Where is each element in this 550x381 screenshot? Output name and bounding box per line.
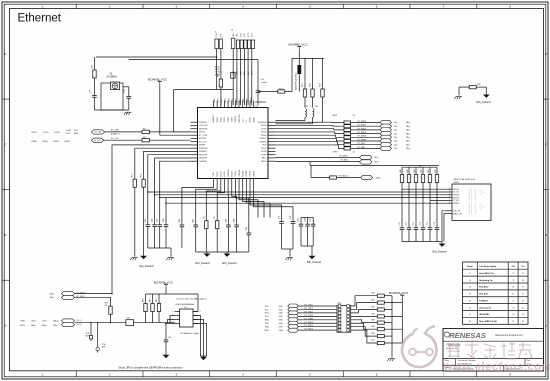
svg-text:1: 1 <box>42 5 44 9</box>
svg-text:TXD2: TXD2 <box>221 98 223 103</box>
svg-text:VSSA: VSSA <box>249 170 252 176</box>
svg-text:25.00MHz: 25.00MHz <box>107 77 118 79</box>
svg-text:R87: R87 <box>372 340 375 342</box>
svg-text:TXOM: TXOM <box>261 151 267 153</box>
resistor RT1 <box>401 167 403 174</box>
svg-text:2: 2 <box>109 5 111 9</box>
svg-text:TXEN: TXEN <box>231 117 233 123</box>
IC U2 bottom pins <box>213 169 255 185</box>
svg-text:R14: R14 <box>140 173 142 177</box>
svg-text:R83: R83 <box>372 313 375 315</box>
svg-text:74991: 74991 <box>454 182 459 184</box>
net flag ET_CRS pill <box>92 130 105 134</box>
svg-text:TMS+: TMS+ <box>265 320 271 322</box>
ground Eth_Ground RJ45 <box>439 244 446 247</box>
ground chassis mid <box>287 257 293 259</box>
resistor R23 <box>322 58 324 89</box>
svg-text:C23: C23 <box>298 218 300 222</box>
svg-text:Off: Off <box>512 266 515 268</box>
svg-text:R17: R17 <box>91 64 93 69</box>
capacitor CT5 <box>428 227 433 229</box>
svg-text:2TX-: 2TX- <box>221 33 223 38</box>
svg-text:R85: R85 <box>372 326 375 328</box>
wire TDP long run <box>148 155 447 192</box>
svg-text:49R: 49R <box>428 169 430 173</box>
svg-text:4K7: 4K7 <box>105 305 108 307</box>
svg-text:1RX+: 1RX+ <box>233 33 235 38</box>
ground Eth_Ground mid3 <box>309 256 316 259</box>
svg-text:<4Dr>: <4Dr> <box>31 320 37 323</box>
capacitor CT4 <box>421 227 426 229</box>
svg-text:TXD9: TXD9 <box>247 98 249 103</box>
resistor R2R <box>216 221 219 229</box>
svg-text:SIDE 10 ML RJ45 Jack: SIDE 10 ML RJ45 Jack <box>454 179 476 181</box>
svg-text:CT5: CT5 <box>427 222 429 225</box>
svg-text:RXIP: RXIP <box>262 154 267 156</box>
net flag ET_MDIO <box>360 155 373 159</box>
svg-text:RXDV: RXDV <box>231 170 233 176</box>
svg-text:LED0PH: LED0PH <box>199 158 207 160</box>
resistor RN1 <box>344 121 351 124</box>
svg-text:Used to store the MAC address: Used to store the MAC address <box>177 298 208 301</box>
capacitor C15 <box>92 94 97 96</box>
svg-text:PWRUP0: PWRUP0 <box>199 148 209 150</box>
svg-text:RESETB: RESETB <box>199 128 208 130</box>
svg-text:5: 5 <box>309 373 311 377</box>
capacitor CE4 <box>165 203 167 224</box>
wire cap rail left <box>148 247 171 249</box>
wire RX row 2 <box>276 129 345 130</box>
ground Eth_Ground left <box>140 256 147 259</box>
capacitor C16 <box>128 87 130 97</box>
svg-text:DB3+: DB3+ <box>376 177 382 179</box>
svg-text:BDVDD: BDVDD <box>199 138 207 140</box>
svg-text:R84: R84 <box>372 320 375 322</box>
svg-text:R22: R22 <box>310 83 312 87</box>
svg-text:Eth_Ground: Eth_Ground <box>140 264 155 268</box>
resistor RH4 <box>377 315 384 318</box>
svg-text:Lab Strap Option: Lab Strap Option <box>479 265 497 268</box>
capacitor CT1 <box>400 227 405 229</box>
wire VCC rail <box>292 57 324 59</box>
svg-text:L2B: L2B <box>315 106 319 108</box>
svg-text:Short JP5 to disable the EEPRO: Short JP5 to disable the EEPROM's write … <box>119 366 184 370</box>
resistor R12 <box>142 139 150 142</box>
svg-text:ET_RXD1: ET_RXD1 <box>358 125 367 127</box>
wire ET_MDC <box>276 161 360 163</box>
svg-text:OSCOUT: OSCOUT <box>199 125 209 127</box>
connector J6 <box>231 30 255 49</box>
svg-text:Eth_Ground: Eth_Ground <box>307 260 322 264</box>
title block <box>443 329 544 372</box>
svg-text:Switching On: Switching On <box>479 279 493 282</box>
svg-text:1TX+: 1TX+ <box>216 32 218 38</box>
svg-text:Eth_Ground: Eth_Ground <box>433 250 448 254</box>
svg-text:NDp: NDp <box>406 122 410 124</box>
svg-text:D: D <box>4 52 7 56</box>
svg-text:CT3: CT3 <box>413 222 415 225</box>
resistor RN2 <box>344 125 351 128</box>
svg-text:Auto MDI-X On: Auto MDI-X On <box>479 272 494 275</box>
resistor RT2 <box>408 167 410 174</box>
capacitor C24 <box>307 217 309 224</box>
svg-text:C16: C16 <box>124 88 126 93</box>
svg-text:CT_TD: CT_TD <box>453 192 459 194</box>
svg-text:TDO+: TDO+ <box>265 313 271 315</box>
IC U2 left pins <box>191 122 209 163</box>
svg-text:ET_RXC: ET_RXC <box>358 143 366 145</box>
svg-text:SPEED: SPEED <box>228 169 230 176</box>
svg-text:50o: 50o <box>394 133 397 135</box>
svg-text:4: 4 <box>242 373 244 377</box>
svg-text:5: 5 <box>309 5 311 9</box>
svg-text:50o: 50o <box>394 141 397 143</box>
svg-text:LED0: LED0 <box>217 171 219 177</box>
resistor R18 <box>109 306 112 314</box>
svg-text:CT1: CT1 <box>399 222 401 225</box>
svg-text:C14: C14 <box>261 79 264 81</box>
svg-text:MDINT: MDINT <box>199 145 206 147</box>
svg-text:C25: C25 <box>310 218 312 222</box>
svg-text:NDp: NDp <box>406 133 410 135</box>
svg-text:RXD3: RXD3 <box>261 125 267 127</box>
wire R23 to IC <box>276 121 323 123</box>
wire LED0 drop <box>135 148 191 179</box>
svg-text:C: C <box>4 142 7 146</box>
svg-text:AVDD33: AVDD33 <box>212 114 215 123</box>
svg-text:RXD1: RXD1 <box>261 132 267 134</box>
svg-text:R12: R12 <box>143 137 146 139</box>
svg-text:49R: 49R <box>421 169 423 173</box>
resistor RH1 <box>377 294 384 297</box>
svg-text:TXOP: TXOP <box>261 148 267 150</box>
wire RX row 0 <box>276 121 345 123</box>
resistor R14 <box>142 179 145 187</box>
svg-text:3: 3 <box>449 193 450 195</box>
resistor RH6 <box>377 328 384 331</box>
resistor R17 <box>94 57 96 70</box>
svg-text:MDC: MDC <box>262 158 267 160</box>
wire mdc run <box>75 297 111 306</box>
resistor RH8 <box>377 341 384 344</box>
svg-text:5MF: 5MF <box>102 346 107 348</box>
svg-text:AVSS: AVSS <box>249 117 252 123</box>
capacitor C21 <box>279 221 284 223</box>
net flag ET_RXD2 <box>288 328 299 332</box>
capacitor CB2 <box>193 224 198 226</box>
ground chassis top right <box>456 96 462 98</box>
svg-text:DO_3: DO_3 <box>77 320 83 322</box>
svg-text:R23: R23 <box>320 83 322 87</box>
net flag ET_RXDV <box>380 135 392 139</box>
resistor RN4 <box>344 132 351 135</box>
resistor R19 <box>126 320 134 326</box>
svg-text:CT2: CT2 <box>406 222 408 225</box>
svg-text:TXD0: TXD0 <box>214 98 216 103</box>
resistor RH3 <box>377 308 384 311</box>
svg-text:1R: 1R <box>214 216 216 219</box>
svg-text:J6: J6 <box>231 30 233 32</box>
svg-text:7: 7 <box>443 5 445 9</box>
net flag DO pill B <box>62 323 75 327</box>
svg-text:MDIO: MDIO <box>261 161 267 163</box>
connector J5 <box>215 32 223 49</box>
svg-text:19Dm: 19Dm <box>20 325 25 327</box>
svg-text:CB1: CB1 <box>179 219 181 223</box>
svg-text:<XB1>: <XB1> <box>42 140 49 143</box>
svg-text:NDp: NDp <box>406 148 410 150</box>
svg-text:CE1: CE1 <box>145 219 147 223</box>
svg-text:Rae LE/RX LE (A): Rae LE/RX LE (A) <box>479 320 497 323</box>
ground Eth eeprom right <box>200 357 207 360</box>
wire eeprom gnd rail <box>201 355 207 357</box>
resistor RP1 <box>145 294 147 304</box>
svg-text:ET_TXD3: ET_TXD3 <box>305 315 313 317</box>
resistor RP2 <box>152 294 154 304</box>
svg-text:BLM18PG(300SN1): BLM18PG(300SN1) <box>295 72 297 90</box>
capacitor CB5 <box>247 232 252 234</box>
svg-text:NDp: NDp <box>406 144 410 146</box>
svg-text:49R: 49R <box>407 169 409 173</box>
svg-text:1R: 1R <box>203 216 205 219</box>
capacitor CT3 <box>414 227 419 229</box>
svg-text:TDI+: TDI+ <box>265 306 270 308</box>
svg-text:TRS+: TRS+ <box>265 327 271 329</box>
svg-text:C22: C22 <box>290 216 292 220</box>
IC U2 top pins <box>212 101 255 123</box>
resistor RN3 <box>344 128 351 131</box>
svg-text:CHENPL: CHENPL <box>199 161 208 163</box>
wire RX row 5 <box>276 138 345 141</box>
svg-text:6: 6 <box>376 5 378 9</box>
svg-text:RSV-: RSV- <box>265 330 270 332</box>
wire vertical drop to left signals <box>173 90 175 132</box>
svg-text:ET_TXEN: ET_TXEN <box>305 318 314 320</box>
wire avdd cap rail <box>301 216 313 218</box>
svg-text:<XD1>: <XD1> <box>43 131 50 134</box>
resistor RH2 <box>377 301 384 304</box>
resistor RT6 <box>436 167 438 174</box>
net flag ET_TXD0 <box>288 304 299 308</box>
resistor RH7 <box>377 335 384 338</box>
svg-text:WF2: WF2 <box>333 152 338 154</box>
wire RJ45 shield pins <box>442 211 447 242</box>
svg-text:50o: 50o <box>394 126 397 128</box>
wire bottom rail grounds <box>196 251 249 253</box>
svg-text:50o: 50o <box>394 130 397 132</box>
svg-text:5: 5 <box>449 199 450 201</box>
wire ET_TXD2 <box>298 312 337 314</box>
svg-text:Eth_Ground: Eth_Ground <box>196 261 211 265</box>
svg-text:VSSB: VSSB <box>253 170 255 176</box>
svg-text:RDM/L0: RDM/L0 <box>453 203 460 205</box>
svg-text:CB4: CB4 <box>234 218 236 223</box>
svg-text:50o: 50o <box>394 122 397 124</box>
svg-text:REGOFF: REGOFF <box>199 154 208 156</box>
wire eeprom vcc rail <box>146 293 199 295</box>
resistor R22 <box>312 58 314 89</box>
svg-text:CRSDV: CRSDV <box>259 138 267 140</box>
svg-text:ET_RXD1: ET_RXD1 <box>305 325 314 327</box>
wire ET_TXD1 <box>298 308 337 310</box>
wire ET_MDIO <box>276 157 360 159</box>
resistor RT4 <box>422 167 424 174</box>
svg-text:29Dn: 29Dn <box>50 297 55 299</box>
svg-text:ET_CRS: ET_CRS <box>199 135 208 137</box>
svg-text:1: 1 <box>42 373 44 377</box>
svg-text:9fBm: 9fBm <box>42 325 47 327</box>
capacitor CB1 <box>180 224 185 226</box>
svg-text:yellow: yellow <box>262 82 268 84</box>
net flag ET_RXD3 <box>380 131 392 135</box>
net flag MDIO pill A <box>62 292 75 296</box>
wire ET_CRS <box>105 131 143 133</box>
IC U2 right pins <box>258 122 276 163</box>
svg-text:<Mdr>: <Mdr> <box>20 320 26 323</box>
svg-text:<XB0>: <XB0> <box>31 140 38 143</box>
svg-text:J5: J5 <box>215 32 217 34</box>
svg-text:<B8>: <B8> <box>279 329 284 332</box>
svg-text:50o: 50o <box>394 144 397 146</box>
svg-text:<B1>: <B1> <box>279 305 284 308</box>
svg-text:TEST1: TEST1 <box>199 132 206 134</box>
svg-text:REFCLK: REFCLK <box>239 114 241 123</box>
resistor R30 <box>469 85 476 88</box>
capacitor C26 <box>165 323 167 340</box>
wire RDM long run <box>165 198 167 204</box>
svg-text:Eth_Ground: Eth_Ground <box>477 100 492 104</box>
wire LED1 drop <box>144 151 191 179</box>
connector J4 header <box>337 303 351 332</box>
svg-text:ET_MDIO: ET_MDIO <box>340 156 349 158</box>
wire TDM long run <box>155 158 447 195</box>
svg-text:SHELL_H2: SHELL_H2 <box>453 213 462 215</box>
svg-text:R30: R30 <box>477 84 480 86</box>
ground Eth_Ground mid1 <box>206 252 208 254</box>
svg-text:4TD-: 4TD- <box>244 33 246 37</box>
ground chassis bottom right <box>389 358 395 360</box>
svg-text:PLU: PLU <box>74 130 79 132</box>
svg-text:LED1: LED1 <box>221 171 223 177</box>
svg-text:R19: R19 <box>127 318 130 320</box>
svg-text:TXD0: TXD0 <box>228 116 230 122</box>
svg-text:ET_RXER: ET_RXER <box>358 139 367 141</box>
svg-text:B: B <box>545 233 547 237</box>
svg-text:C24: C24 <box>305 217 307 221</box>
svg-text:ET_CRS: ET_CRS <box>95 132 103 134</box>
capacitor C23 <box>300 217 302 224</box>
wire termination top bus <box>402 166 437 168</box>
svg-text:RP1: RP1 <box>143 298 145 302</box>
svg-text:B: B <box>4 233 6 237</box>
svg-text:R24 0: R24 0 <box>279 88 284 90</box>
svg-text:ET_MDC: ET_MDC <box>341 160 349 162</box>
ferrite bead L04 <box>298 58 300 65</box>
wire RX row 1 <box>276 124 345 127</box>
svg-text:TXD8: TXD8 <box>243 98 245 103</box>
net flag ET_MDC <box>360 160 373 164</box>
svg-text:TXD5: TXD5 <box>232 98 234 103</box>
table Lab Strap Option <box>463 262 529 324</box>
svg-text:C15: C15 <box>90 89 92 94</box>
watermark chinese characters <box>448 342 532 359</box>
svg-text:CT_RD: CT_RD <box>453 200 460 202</box>
wire top right <box>459 86 469 88</box>
svg-text:2RX-: 2RX- <box>237 33 239 38</box>
svg-text:LED2: LED2 <box>224 171 226 177</box>
svg-text:ET_TXD2: ET_TXD2 <box>305 311 313 313</box>
svg-text:ET_REF: ET_REF <box>358 147 366 149</box>
ground chassis left2 <box>168 257 174 259</box>
svg-text:BOARD_VCC: BOARD_VCC <box>389 291 409 295</box>
svg-text:R86: R86 <box>372 333 375 335</box>
svg-text:TXD2: TXD2 <box>221 116 223 122</box>
svg-text:R1EX24002ASA00A: R1EX24002ASA00A <box>176 303 195 306</box>
wire eeprom right pins down <box>193 316 201 357</box>
svg-text:NDE: NDE <box>74 133 79 135</box>
ground Eth_Ground top right <box>483 95 490 98</box>
svg-text:A: A <box>545 324 547 328</box>
svg-text:2fBm: 2fBm <box>31 325 36 327</box>
svg-text:RXERR: RXERR <box>259 141 267 143</box>
ground chassis crystal <box>126 111 132 113</box>
svg-text:4: 4 <box>449 196 450 198</box>
wire to Eth gnd <box>485 87 487 94</box>
svg-text:Autoneg On: Autoneg On <box>479 306 492 309</box>
svg-text:RXD2: RXD2 <box>261 128 267 130</box>
resistor RN7 <box>344 143 351 146</box>
svg-text:<9Dr>: <9Dr> <box>42 320 48 323</box>
svg-text:49R: 49R <box>414 169 416 173</box>
component FB3 <box>231 72 235 78</box>
logo Renesas <box>444 331 523 340</box>
ground chassis left1 <box>132 257 138 259</box>
svg-text:M3n: M3n <box>375 162 379 164</box>
crystal X2 25MHz module <box>101 83 123 110</box>
net flag ET_TXD1 <box>288 307 299 311</box>
svg-text:5CT0: 5CT0 <box>248 33 250 38</box>
wire mdio run <box>75 293 113 295</box>
wire pullup bus gnd <box>391 296 393 358</box>
net flag ET_RXC <box>380 143 392 147</box>
svg-text:TCK-: TCK- <box>265 323 270 325</box>
svg-text:X2: X2 <box>110 73 114 75</box>
wire RX row 4 <box>276 135 345 137</box>
connector J3 RJ45 jack <box>447 179 491 220</box>
wires IC bottom fan-out <box>182 186 293 218</box>
svg-text:<XD2>: <XD2> <box>54 131 61 134</box>
capacitor C14 <box>257 60 259 91</box>
svg-text:VDD: VDD <box>262 145 267 147</box>
wire ET_RXD0 <box>298 322 337 324</box>
svg-text:8: 8 <box>200 311 201 313</box>
svg-text:ET_RXD3: ET_RXD3 <box>358 132 367 134</box>
capacitor C25 <box>312 217 314 224</box>
capacitor CE2 <box>154 195 156 225</box>
net flag ET_REF <box>380 146 392 150</box>
wire crystal to cap <box>123 86 129 88</box>
resistor R24 0 <box>278 90 285 93</box>
svg-text:2: 2 <box>109 373 111 377</box>
wire rail right <box>282 248 294 250</box>
net flag ET_COL pill <box>92 138 104 142</box>
wire crystal ground rail <box>95 109 129 111</box>
svg-text:R11: R11 <box>143 129 146 131</box>
svg-text:NDp: NDp <box>406 141 410 143</box>
svg-text:RP2: RP2 <box>150 298 152 302</box>
svg-text:22: 22 <box>353 152 356 154</box>
svg-text:VDD18: VDD18 <box>239 169 241 176</box>
